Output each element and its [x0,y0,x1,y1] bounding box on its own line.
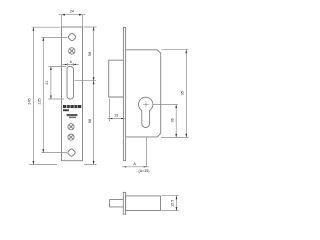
svg-text:(A=35): (A=35) [139,169,150,173]
dimension 24 top [59,15,86,27]
bottom view bolt stub [110,200,124,207]
dimension 8 slot width [62,63,79,66]
dimension 36 cylinder center to case bottom [161,105,189,138]
dimension 58 68 right [75,27,97,164]
dimension 15.5 case thickness [162,196,179,211]
svg-text:95: 95 [180,91,184,95]
cylinder centerline [153,104,178,106]
side view faceplate strip [123,27,125,160]
svg-text:68: 68 [88,119,92,123]
dimension 41 slot height [48,67,66,100]
svg-text:15: 15 [114,113,118,117]
dimension 245 left [29,27,61,164]
svg-text:36: 36 [170,118,174,122]
svg-text:24: 24 [70,9,75,14]
dimension 125 left inner [41,37,67,152]
bottom view lock case [126,196,161,211]
spindle square hole top [68,33,77,42]
svg-text:58: 58 [88,52,92,56]
slot (latch opening) [67,67,74,100]
svg-text:15.5: 15.5 [171,200,175,207]
euro cylinder hole [139,97,153,127]
dimension 15 bolt protrusion [108,99,127,122]
dimension 95 case top to cylinder center [162,50,189,138]
svg-text:8: 8 [70,60,72,64]
svg-text:41: 41 [45,81,49,85]
svg-text:245: 245 [28,98,32,104]
cylinder center cross [143,102,149,108]
screw hole middle [68,124,74,130]
bolt block protruding [109,60,124,97]
dimension A backset [122,137,149,167]
svg-text:125: 125 [37,98,41,104]
screw hole top [69,48,75,54]
screw hole lower [68,134,74,140]
spindle square hole bottom [67,148,76,157]
logo block [63,105,81,118]
faceplate front view outline [62,27,83,161]
bottom view faceplate bar [123,192,125,214]
side view lock case [126,50,161,137]
